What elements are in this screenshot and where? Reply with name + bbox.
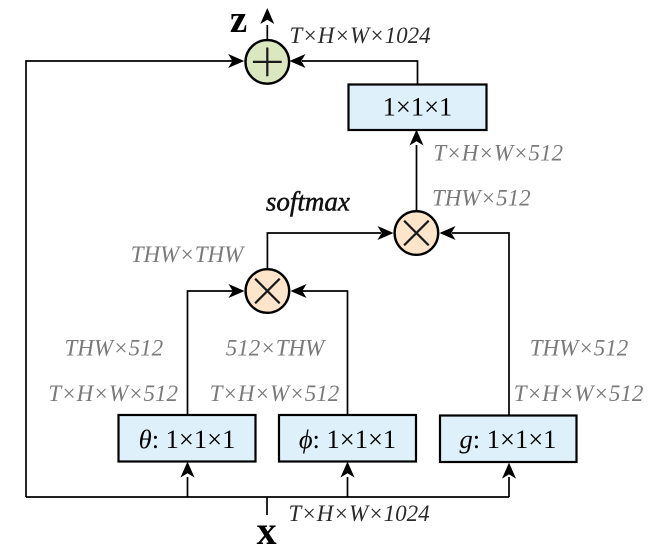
svg-text:THW×THW: THW×THW [131, 242, 245, 267]
svg-text:softmax: softmax [266, 187, 350, 217]
svg-text:512×THW: 512×THW [226, 336, 326, 361]
svg-text:T×H×W×1024: T×H×W×1024 [290, 23, 431, 48]
svg-text:z: z [230, 0, 247, 41]
svg-text:THW×512: THW×512 [65, 336, 164, 361]
svg-text:T×H×W×512: T×H×W×512 [210, 381, 340, 406]
svg-text:T×H×W×1024: T×H×W×1024 [289, 501, 430, 526]
svg-text:T×H×W×512: T×H×W×512 [48, 381, 178, 406]
svg-text:T×H×W×512: T×H×W×512 [514, 381, 644, 406]
svg-text:θ: 1×1×1: θ: 1×1×1 [139, 424, 236, 454]
svg-text:g: 1×1×1: g: 1×1×1 [460, 424, 557, 454]
svg-text:1×1×1: 1×1×1 [383, 92, 453, 122]
svg-text:THW×512: THW×512 [530, 336, 629, 361]
svg-text:THW×512: THW×512 [432, 186, 531, 211]
svg-text:T×H×W×512: T×H×W×512 [433, 141, 563, 166]
svg-text:x: x [257, 508, 277, 553]
svg-text:ϕ: 1×1×1: ϕ: 1×1×1 [299, 424, 396, 454]
